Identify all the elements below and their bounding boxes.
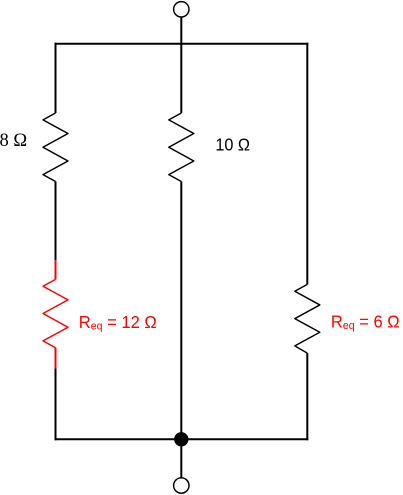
- wire junction to bottom terminal: [180, 439, 182, 478]
- wire bottom bus: [55, 438, 309, 440]
- junction node (filled dot): [174, 432, 188, 446]
- svg-text:10 Ω: 10 Ω: [215, 135, 250, 155]
- terminal T2 (bottom open circle): [174, 478, 189, 493]
- wire top terminal to top bus: [180, 17, 182, 44]
- svg-text:8 Ω: 8 Ω: [0, 131, 27, 151]
- wire top bus: [55, 43, 309, 45]
- wire middle branch lower: [180, 182, 182, 440]
- resistor R4 Req 6 ohm: [295, 284, 320, 353]
- wire left branch red upper lead: [55, 260, 57, 279]
- svg-text:Req = 6 Ω: Req = 6 Ω: [331, 311, 400, 332]
- resistor R3 10 ohm: [169, 113, 194, 182]
- wire left branch red lower lead: [55, 348, 57, 369]
- wire left branch middle (black): [55, 182, 57, 261]
- wire left branch upper: [55, 43, 57, 113]
- terminal T1 (top open circle): [174, 2, 189, 17]
- wire right branch lower: [306, 353, 308, 440]
- svg-text:Req = 12 Ω: Req = 12 Ω: [79, 312, 157, 333]
- resistor R1 8 ohm: [43, 113, 68, 182]
- resistor R2 Req 12 ohm (red): [43, 279, 68, 347]
- wire left branch lower (black): [55, 368, 57, 440]
- wire middle branch upper: [180, 44, 182, 113]
- wire right branch upper: [306, 43, 308, 285]
